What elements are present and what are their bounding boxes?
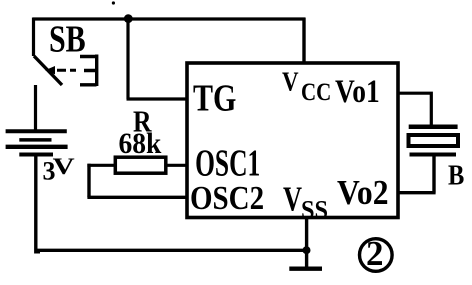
- node: junction dot bottom bus: [303, 246, 311, 254]
- svg-text:OSC2: OSC2: [190, 179, 264, 216]
- wire: top bus: [33, 17, 305, 20]
- wire: OSC1 right segment: [167, 164, 187, 167]
- svg-text:68k: 68k: [119, 127, 162, 160]
- wire: OSC1 left segment: [87, 164, 114, 167]
- pin label Vcc: [282, 66, 299, 98]
- svg-text:B: B: [448, 159, 464, 191]
- resistor R 68k: [115, 157, 166, 173]
- switch SB blade: [34, 56, 62, 85]
- svg-text:V: V: [53, 154, 76, 179]
- switch SB actuator (push-button cap with dashed link and arrow): [45, 55, 97, 87]
- pin label OSC1: [195, 142, 260, 184]
- node: junction dot top bus: [124, 14, 133, 23]
- svg-text:V: V: [283, 180, 302, 218]
- wire: Vcc drop from top bus: [302, 18, 305, 64]
- label 3V: [43, 157, 56, 186]
- wire: Vo2 pin lead: [398, 157, 436, 193]
- wire: TG pin lead: [127, 97, 188, 100]
- svg-text:TG: TG: [193, 77, 236, 119]
- label B: [448, 159, 464, 191]
- svg-text:OSC1: OSC1: [195, 142, 260, 184]
- speck: [112, 1, 115, 4]
- pin label Vo1: [335, 73, 380, 110]
- battery GB 3V: [6, 131, 68, 154]
- pin label OSC2: [190, 179, 264, 216]
- wire: switch to battery: [34, 85, 37, 130]
- wire: Vss lead to ground: [305, 218, 308, 268]
- wire: Vo1 pin lead: [398, 93, 431, 124]
- ground: [289, 267, 322, 271]
- pin label Vo2: [337, 174, 389, 213]
- wire: bottom bus: [35, 249, 307, 252]
- label R: [133, 106, 152, 139]
- wire: OSC loop vertical: [87, 164, 90, 198]
- svg-text:2: 2: [366, 234, 384, 273]
- IC U1: [187, 63, 398, 218]
- label 68k: [119, 127, 162, 160]
- svg-text:Vo1: Vo1: [335, 73, 380, 110]
- pin label TG: [193, 77, 236, 119]
- svg-text:Vo2: Vo2: [337, 174, 389, 213]
- svg-text:SB: SB: [49, 18, 86, 60]
- pin label Vss: [283, 180, 302, 218]
- wire: switch top lead: [32, 18, 35, 57]
- svg-text:CC: CC: [301, 78, 331, 106]
- wire: battery to bottom bus: [36, 157, 40, 252]
- figure number 2 (circled): [360, 234, 393, 273]
- svg-text:V: V: [282, 66, 299, 98]
- buzzer B: [409, 127, 459, 155]
- label SB: [49, 18, 86, 60]
- wire: OSC2 pin lead: [87, 196, 187, 199]
- wire: TG drop from top bus: [126, 19, 129, 99]
